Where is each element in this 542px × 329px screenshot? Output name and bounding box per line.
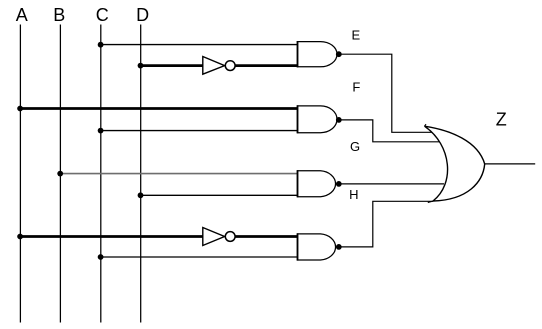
svg-text:D: D bbox=[136, 5, 149, 25]
svg-text:A: A bbox=[16, 5, 28, 25]
svg-text:B: B bbox=[53, 5, 65, 25]
svg-text:F: F bbox=[352, 80, 360, 95]
svg-text:Z: Z bbox=[496, 110, 507, 130]
svg-text:C: C bbox=[96, 5, 109, 25]
svg-text:G: G bbox=[350, 139, 360, 154]
svg-text:E: E bbox=[352, 28, 361, 43]
svg-text:H: H bbox=[349, 187, 358, 202]
